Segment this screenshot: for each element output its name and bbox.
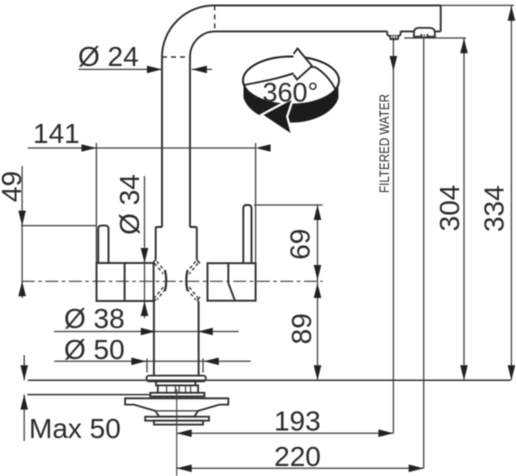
spout horizontal top <box>214 4 441 6</box>
right socket apex arc <box>186 270 187 291</box>
dim 220 right arrowhead <box>409 465 424 473</box>
dim 49 extension <box>21 225 97 227</box>
right handle body <box>208 263 256 301</box>
band/arrow white gap <box>264 100 292 133</box>
dim 141 extension lines <box>96 143 255 263</box>
dim 334 top arrowhead <box>508 6 516 21</box>
svg-text:Ø 24: Ø 24 <box>78 41 139 72</box>
spout riser pipe <box>162 57 190 227</box>
dim Ø38 leader <box>54 331 239 333</box>
dim 304 extension <box>404 37 466 39</box>
right handle seams <box>228 263 235 301</box>
stud ticks <box>160 396 192 398</box>
svg-text:49: 49 <box>0 171 27 202</box>
dim Ø24 leader <box>79 68 213 70</box>
spout end cap <box>440 5 442 31</box>
dim O34 bottom arrowhead <box>141 301 149 316</box>
countertop bottom line <box>27 394 150 396</box>
filtered water leader line <box>392 40 394 433</box>
dim 334 bottom arrowhead <box>508 365 516 380</box>
base flange <box>147 376 206 382</box>
dim 69 top arrowhead <box>314 205 322 220</box>
dim 193 line <box>177 432 394 434</box>
dim Ø50 leader <box>54 360 250 362</box>
dim 220 left arrowhead <box>177 465 192 473</box>
left socket dashed slopes <box>155 261 166 299</box>
dim 69 line <box>317 205 319 281</box>
lock washer <box>145 417 209 421</box>
dim O50 right arrowhead <box>204 358 219 366</box>
aerator nozzle (big) <box>414 28 435 37</box>
dim 304 top arrowhead <box>460 38 468 53</box>
dim O50 left arrowhead <box>131 358 146 366</box>
dim 49 bottom arrowhead <box>18 281 26 296</box>
dim 69 extension <box>254 204 323 206</box>
ring side band <box>244 84 339 123</box>
mounting bracket <box>125 398 228 416</box>
left socket apex arc <box>165 270 166 291</box>
countertop top line <box>28 379 511 381</box>
dim 49 top arrowhead <box>18 211 26 226</box>
threaded shank <box>158 385 198 392</box>
dim O24 left arrowhead <box>147 66 162 74</box>
svg-text:Ø 34: Ø 34 <box>114 174 145 235</box>
svg-text:304: 304 <box>434 185 465 232</box>
dim 141 line <box>28 147 256 149</box>
dim O34 top arrowhead <box>141 248 149 263</box>
svg-text:Max 50: Max 50 <box>29 413 121 444</box>
left handle seam <box>124 263 126 301</box>
right socket corner chamfers <box>197 260 200 301</box>
mounting nut <box>154 421 203 425</box>
left lever <box>98 226 108 263</box>
dim 193 left arrowhead <box>177 429 192 437</box>
body lower column <box>154 301 199 376</box>
svg-text:69: 69 <box>285 229 316 260</box>
washer bar <box>150 393 204 397</box>
dim Ø50 ticks <box>147 359 203 373</box>
right lever <box>243 205 251 263</box>
dim Max50 top arrowhead <box>20 365 28 380</box>
dim 141 right arrowhead <box>256 144 271 152</box>
ribbon inner edge <box>244 67 336 91</box>
bend tangent dashes <box>162 56 190 58</box>
dim O24 right arrowhead <box>192 66 207 74</box>
dim O38 right arrowhead <box>198 328 213 336</box>
spout horizontal bottom <box>215 30 441 32</box>
dim 69 bottom arrowhead <box>314 265 322 280</box>
faucet axis line <box>176 389 178 476</box>
dim 220 line <box>177 467 424 469</box>
dim 141 left arrowhead <box>81 144 96 152</box>
svg-text:193: 193 <box>274 406 321 437</box>
shank block <box>156 381 196 385</box>
svg-text:220: 220 <box>274 441 321 472</box>
filtered water flow arrowhead <box>390 56 398 71</box>
svg-text:FILTERED WATER: FILTERED WATER <box>376 94 392 193</box>
svg-text:89: 89 <box>286 313 317 344</box>
ring top face <box>243 57 339 105</box>
dim O38 left arrowhead <box>141 328 156 336</box>
dim 49 line <box>21 166 23 298</box>
handle center line <box>22 280 323 282</box>
dim Ø34 line <box>144 176 146 318</box>
dim 334 line <box>510 6 512 380</box>
svg-text:141: 141 <box>33 118 80 149</box>
360 degree swivel symbol <box>243 49 339 134</box>
body step <box>156 226 197 228</box>
svg-text:334: 334 <box>479 185 510 232</box>
dim Max50 bottom arrowhead <box>20 395 28 410</box>
dim Max50 stubs <box>23 355 25 441</box>
dim 304 line <box>463 38 465 380</box>
dim 89 top arrowhead <box>314 283 322 298</box>
spout bend outer arc <box>162 5 214 57</box>
right socket dashed slopes <box>187 261 198 299</box>
dim 89 bottom arrowhead <box>314 365 322 380</box>
svg-text:Ø 50: Ø 50 <box>64 334 125 365</box>
svg-text:360°: 360° <box>262 78 318 108</box>
filtered water nozzle (small) <box>387 31 400 36</box>
spout bend inner arc <box>190 31 215 57</box>
aerator leader line <box>423 38 425 469</box>
left socket corner chamfers <box>153 260 156 301</box>
dim 304 bottom arrowhead <box>460 365 468 380</box>
body upper column <box>156 227 197 260</box>
left handle body <box>97 263 154 301</box>
dim 89 line <box>317 281 319 380</box>
dim 334 extension <box>441 4 514 6</box>
white arrow head <box>294 49 313 80</box>
svg-text:Ø 38: Ø 38 <box>64 303 125 334</box>
dim 193 right arrowhead <box>378 429 393 437</box>
rotation arrowhead black <box>264 100 292 133</box>
